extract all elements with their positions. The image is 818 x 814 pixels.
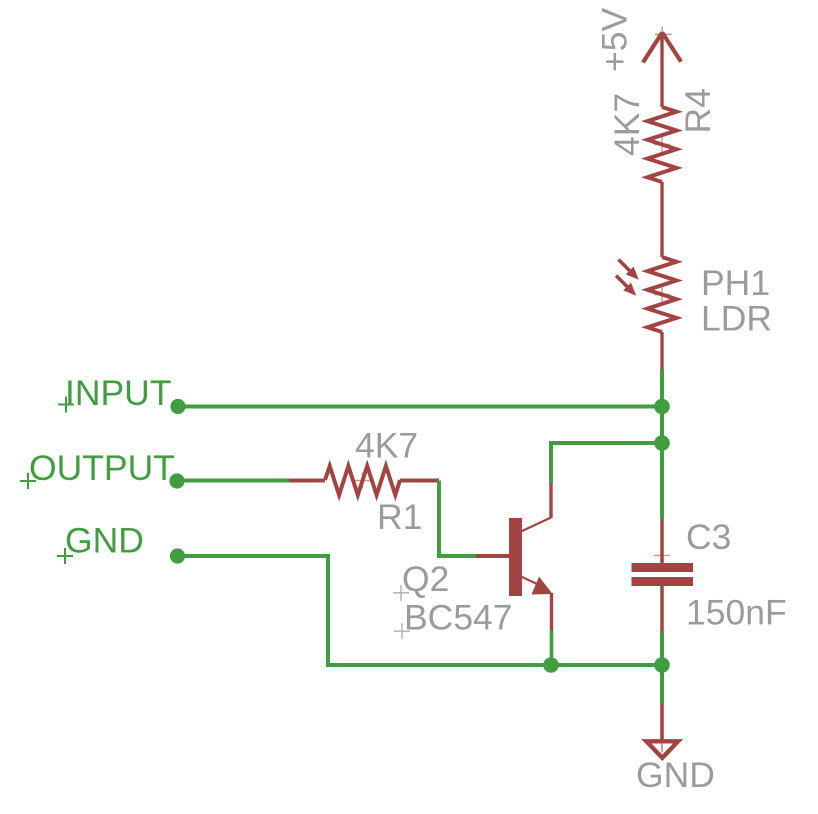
wire collector red lead — [549, 483, 552, 518]
wire green cap bottom to rail — [660, 631, 664, 665]
svg-text:+5V: +5V — [595, 8, 635, 72]
node junction bottom rail / cap / gnd — [654, 657, 670, 673]
svg-text:GND: GND — [636, 755, 715, 795]
wire collector branch green — [551, 443, 662, 483]
node junction emitter / bottom rail — [543, 657, 559, 673]
resistor R4 — [648, 107, 677, 182]
photoresistor PH1 (LDR) — [616, 257, 677, 332]
wire red gnd lead — [660, 704, 664, 740]
wire OUTPUT net green — [177, 479, 289, 483]
svg-text:OUTPUT: OUTPUT — [29, 448, 175, 488]
ground symbol GND — [646, 741, 678, 758]
node junction at rail / collector branch — [654, 435, 670, 451]
wire rail between junctions — [660, 407, 664, 444]
node junction at rail / INPUT — [654, 399, 670, 415]
wire red lead PH1 bottom — [660, 332, 663, 370]
net label GND (left) — [57, 520, 144, 564]
pin dot GND — [170, 548, 185, 563]
transistor Q2 (NPN BC547) — [476, 518, 553, 597]
svg-text:4K7: 4K7 — [607, 93, 647, 156]
svg-text:INPUT: INPUT — [65, 373, 172, 413]
svg-text:Q2: Q2 — [402, 559, 449, 599]
wire base net green — [439, 481, 476, 557]
net label OUTPUT — [20, 448, 175, 489]
label BC547 — [394, 597, 513, 639]
svg-text:R1: R1 — [377, 497, 422, 537]
wire emitter green — [550, 630, 554, 665]
pin dot OUTPUT — [169, 473, 184, 488]
svg-text:PH1: PH1 — [701, 263, 770, 303]
capacitor C3 — [632, 519, 694, 632]
svg-text:R4: R4 — [678, 88, 718, 133]
svg-text:C3: C3 — [686, 517, 731, 557]
resistor R1 — [289, 466, 439, 495]
wire bottom rail green — [551, 663, 662, 667]
wire INPUT net — [178, 405, 662, 409]
wire green rail down to INPUT node — [660, 370, 664, 406]
wire emitter red lead — [550, 593, 553, 630]
wire rail green down to capacitor — [660, 443, 664, 519]
svg-text:BC547: BC547 — [404, 597, 513, 637]
+5V supply symbol P+1 — [643, 27, 681, 108]
wire red lead R4 to PH1 — [660, 182, 663, 257]
label Q2 — [393, 559, 449, 601]
svg-text:4K7: 4K7 — [355, 425, 418, 465]
net label INPUT — [58, 373, 172, 413]
svg-text:150nF: 150nF — [686, 592, 787, 632]
svg-text:GND: GND — [65, 520, 144, 560]
svg-text:LDR: LDR — [701, 298, 772, 338]
wire green rail to gnd lead — [660, 665, 664, 704]
wire GND net green — [178, 556, 552, 665]
pin dot INPUT — [170, 399, 185, 414]
